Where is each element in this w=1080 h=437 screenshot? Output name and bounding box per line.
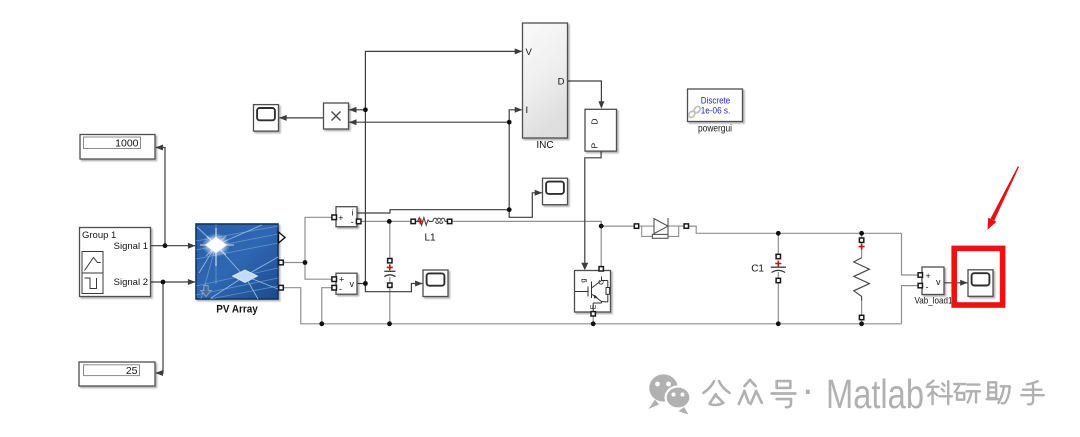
svg-text:PV Array: PV Array — [216, 303, 258, 315]
svg-text:1000: 1000 — [115, 138, 139, 150]
svg-text:L1: L1 — [424, 233, 436, 244]
svg-text:-: - — [926, 282, 929, 292]
svg-text:V: V — [526, 47, 533, 58]
svg-text:Group 1: Group 1 — [82, 230, 116, 241]
svg-text:-: - — [339, 284, 342, 294]
svg-text:Signal 2: Signal 2 — [114, 277, 148, 288]
svg-text:v: v — [936, 277, 941, 287]
svg-text:·: · — [801, 366, 815, 412]
svg-text:+: + — [339, 275, 344, 285]
svg-text:g: g — [579, 279, 588, 283]
svg-text:Matlab: Matlab — [826, 371, 924, 417]
svg-text:1e-06 s.: 1e-06 s. — [701, 105, 731, 116]
svg-text:-: - — [351, 217, 354, 227]
svg-text:C: C — [597, 279, 606, 285]
svg-text:25: 25 — [126, 365, 138, 377]
svg-text:v: v — [350, 279, 355, 289]
svg-text:Vab_load1: Vab_load1 — [915, 296, 953, 307]
svg-text:E: E — [589, 304, 598, 309]
svg-text:+: + — [926, 271, 931, 281]
svg-text:+: + — [338, 213, 343, 223]
svg-text:INC: INC — [536, 140, 553, 151]
svg-text:P: P — [590, 143, 600, 149]
svg-text:D: D — [590, 119, 600, 125]
svg-text:Signal 1: Signal 1 — [114, 241, 148, 252]
svg-text:powergui: powergui — [698, 124, 732, 135]
svg-text:C1: C1 — [751, 264, 764, 275]
svg-text:D: D — [558, 77, 565, 88]
svg-text:I: I — [526, 105, 529, 116]
